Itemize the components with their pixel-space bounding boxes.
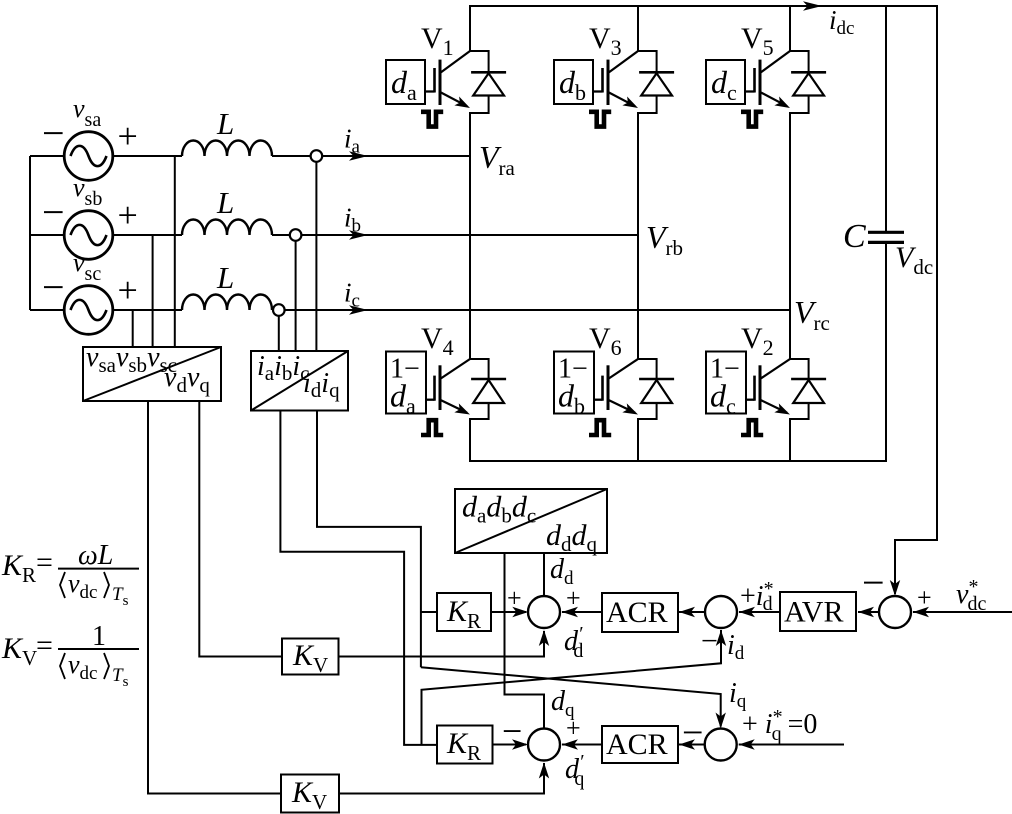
wire phase a (inductor to bridge leg) <box>272 155 470 157</box>
gate duty box d (V_3) <box>554 60 593 104</box>
svg-text:L: L <box>216 260 234 295</box>
wire phase b (inductor to bridge leg) <box>272 234 638 236</box>
svg-text:Vra: Vra <box>479 139 516 180</box>
svg-text:−: − <box>701 625 718 658</box>
diode (antiparallel, V_3) <box>638 50 674 114</box>
svg-text:d′q: d′q <box>565 751 584 790</box>
block K_V (1, v_d feedforward) <box>282 639 339 675</box>
svg-text:vsa: vsa <box>73 94 101 131</box>
gate duty box 1d (V_6) <box>554 352 594 414</box>
ac source v_sb <box>30 211 113 260</box>
svg-text:=: = <box>36 629 53 662</box>
wire capacitor branch lower <box>885 242 887 462</box>
svg-text:+: + <box>507 584 522 613</box>
diode (antiparallel, V_1) <box>470 50 506 114</box>
svg-text:Vrb: Vrb <box>646 219 683 260</box>
block K_R (d-axis) <box>437 593 491 631</box>
svg-text:da: da <box>391 64 417 105</box>
node tap i_b (measurement point) <box>290 229 302 241</box>
transform box abc->dq (voltages) <box>83 347 221 401</box>
wire bridge leg c upper <box>789 5 791 52</box>
wire bridge leg b lower <box>637 418 639 462</box>
gate duty box 1d (V_2) <box>706 352 746 414</box>
node tap i_a (measurement point) <box>311 150 323 162</box>
svg-text:id: id <box>727 630 745 664</box>
svg-text:vdvq: vdvq <box>164 362 210 397</box>
gate pulse waveform (V_1) <box>421 112 443 127</box>
svg-text:+: + <box>118 116 138 156</box>
wire bridge leg c middle <box>789 112 791 360</box>
wire phase a (source to inductor) <box>113 155 182 157</box>
svg-text:V5: V5 <box>741 22 774 60</box>
ac source v_sc <box>30 286 113 335</box>
gate pulse waveform (V_2) <box>741 420 763 435</box>
svg-text:+i*d: +i*d <box>740 578 774 615</box>
wire bridge leg a middle <box>469 112 471 360</box>
wire bridge leg b middle <box>637 112 639 360</box>
arrow i_b <box>349 230 368 240</box>
capacitor C <box>868 232 904 242</box>
svg-text:ACR: ACR <box>606 596 668 629</box>
summing junction d_q <box>528 729 560 761</box>
wire phase c (source to inductor) <box>113 309 182 311</box>
wire capacitor branch upper <box>885 5 887 232</box>
wire K_R to summing junction d <box>491 611 526 613</box>
svg-text:Vdc: Vdc <box>895 241 933 279</box>
svg-text:KV: KV <box>291 776 327 814</box>
svg-text:+ i*q=0: + i*q=0 <box>742 706 817 745</box>
wire phase b (source to inductor) <box>113 234 182 236</box>
svg-text:idc: idc <box>829 5 854 39</box>
svg-text:−: − <box>502 711 522 751</box>
wire negative dc rail <box>470 460 886 462</box>
svg-text:C: C <box>843 218 866 255</box>
gate duty box d (V_5) <box>706 60 745 104</box>
transistor V_2 (IGBT) <box>746 359 790 415</box>
svg-text:db: db <box>559 64 586 105</box>
diode (antiparallel, V_6) <box>638 358 674 420</box>
gate pulse waveform (V_3) <box>589 112 611 127</box>
wire i_q sense path <box>317 411 421 668</box>
wire junction v_dc to AVR <box>858 611 879 613</box>
wire bridge leg c lower <box>789 418 791 462</box>
equation K_R = omega L / <v_dc>_Ts <box>1 540 139 609</box>
transistor V_4 (IGBT) <box>426 359 470 415</box>
wire junction i_q to ACR <box>679 744 705 746</box>
svg-text:L: L <box>216 106 234 141</box>
transistor V_6 (IGBT) <box>594 359 638 415</box>
svg-text:+: + <box>118 270 138 310</box>
svg-text:idiq: idiq <box>303 368 340 402</box>
gate duty box 1d (V_4) <box>386 352 426 414</box>
transistor V_5 (IGBT) <box>745 51 790 108</box>
summing junction i_q <box>705 729 737 761</box>
svg-text:ib: ib <box>344 203 361 237</box>
wire bridge leg a upper <box>469 5 471 52</box>
arrow i_c <box>349 305 368 315</box>
svg-text:KR: KR <box>1 549 36 587</box>
wire positive dc rail <box>470 5 937 7</box>
svg-text:d′d: d′d <box>564 623 583 662</box>
svg-text:+: + <box>917 583 932 612</box>
svg-text:KR: KR <box>446 595 481 633</box>
block ACR (q-axis) <box>602 726 678 763</box>
summing junction v_dc <box>879 596 911 628</box>
block K_V (2, v_q feedforward) <box>281 775 339 813</box>
arrow i_dc <box>803 1 822 11</box>
svg-text:L: L <box>216 185 234 220</box>
wire bridge leg a lower <box>469 418 471 462</box>
wire v_sc sense tap <box>132 310 134 347</box>
wire v*_dc input <box>913 611 1012 613</box>
inductor L (phase a) <box>182 141 272 157</box>
svg-text:+: + <box>118 195 138 235</box>
transform box abc->dq (currents) <box>251 351 348 411</box>
transform box dq->abc (duty cycles) <box>455 489 607 553</box>
wire K_R to junction d_q <box>493 744 527 746</box>
wire junction i_d to ACR <box>679 611 705 613</box>
svg-text:ic: ic <box>344 278 360 312</box>
diode (antiparallel, V_4) <box>470 358 506 420</box>
svg-text:ia: ia <box>344 124 361 158</box>
wire v_q to K_V2 <box>148 401 281 794</box>
inductor L (phase c) <box>182 295 272 311</box>
wire v_dc feedback <box>895 5 937 594</box>
transistor V_3 (IGBT) <box>593 51 638 108</box>
svg-text:KR: KR <box>446 727 481 765</box>
gate pulse waveform (V_6) <box>589 420 611 435</box>
svg-text:ACR: ACR <box>606 728 668 761</box>
svg-text:V1: V1 <box>421 22 454 60</box>
block K_R (q-axis) <box>437 726 493 764</box>
diode (antiparallel, V_2) <box>790 358 826 420</box>
inductor L (phase b) <box>182 220 272 236</box>
svg-text:dc: dc <box>711 64 737 105</box>
wire K_V2 to junction d_q <box>339 763 544 794</box>
wire ACR to junction d_q <box>562 744 602 746</box>
svg-text:vdc: vdc <box>68 569 97 603</box>
svg-text:1: 1 <box>92 621 106 652</box>
arrow i_a <box>349 151 368 161</box>
node tap i_c (measurement point) <box>273 304 285 316</box>
svg-text:−: − <box>862 560 885 605</box>
wire i_q to K_R (d-axis) <box>421 611 437 613</box>
svg-text:Ts: Ts <box>112 665 129 690</box>
svg-text:v*dc: v*dc <box>956 576 986 615</box>
svg-text:+: + <box>566 714 581 743</box>
svg-text:dddq: dddq <box>546 519 598 556</box>
svg-text:vdc: vdc <box>68 650 97 684</box>
wire i_d cross to d-axis junction <box>422 630 722 745</box>
transistor V_1 (IGBT) <box>425 51 470 108</box>
svg-text:AVR: AVR <box>784 596 843 629</box>
wire i_q cross to q-axis junction <box>421 667 721 726</box>
svg-text:−: − <box>42 265 65 310</box>
diode (antiparallel, V_5) <box>790 50 826 114</box>
wire i_a sense tap <box>315 161 317 351</box>
block AVR <box>780 592 856 631</box>
svg-text:=: = <box>36 546 53 579</box>
gate pulse waveform (V_5) <box>741 112 763 127</box>
svg-text:KV: KV <box>292 639 328 677</box>
wire i_b sense tap <box>295 240 297 351</box>
svg-text:−: − <box>42 190 65 235</box>
wire v_sa sense tap <box>174 156 176 347</box>
svg-text:V3: V3 <box>589 22 622 60</box>
block ACR (d-axis) <box>602 593 678 632</box>
svg-text:+: + <box>566 584 581 613</box>
wire i*_q input <box>739 744 844 746</box>
summing junction d_d <box>528 596 560 628</box>
wire v_d to K_V1 <box>199 401 282 657</box>
svg-text:−: − <box>42 111 65 156</box>
svg-text:dadbdc: dadbdc <box>462 491 536 528</box>
gate duty box d (V_1) <box>386 60 425 104</box>
node: neutral bus wire <box>29 156 31 310</box>
svg-text:KV: KV <box>1 632 37 670</box>
svg-text:−: − <box>682 712 703 754</box>
equation K_V = 1 / <v_dc>_Ts <box>1 621 139 690</box>
wire d_d output <box>543 553 545 596</box>
ac source v_sa <box>30 132 113 181</box>
wire v_sb sense tap <box>152 235 154 347</box>
wire K_V1 to junction d_d <box>339 631 545 657</box>
svg-text:ωL: ωL <box>78 540 113 571</box>
svg-text:iq: iq <box>729 678 747 712</box>
wire AVR to junction i_d <box>739 611 780 613</box>
svg-text:Ts: Ts <box>112 584 129 609</box>
wire bridge leg b upper <box>637 5 639 52</box>
wire i_d sense path <box>280 411 437 745</box>
svg-text:iaibic: iaibic <box>257 351 310 385</box>
svg-text:vsc: vsc <box>73 248 101 285</box>
summing junction i_d <box>705 596 737 628</box>
wire d_q to transform box <box>505 553 545 729</box>
wire phase c (inductor to bridge leg) <box>272 309 790 311</box>
wire i_c sense tap <box>278 315 280 351</box>
wire ACR to junction d_d <box>562 611 602 613</box>
gate pulse waveform (V_4) <box>421 420 443 435</box>
svg-text:Vrc: Vrc <box>794 294 830 335</box>
